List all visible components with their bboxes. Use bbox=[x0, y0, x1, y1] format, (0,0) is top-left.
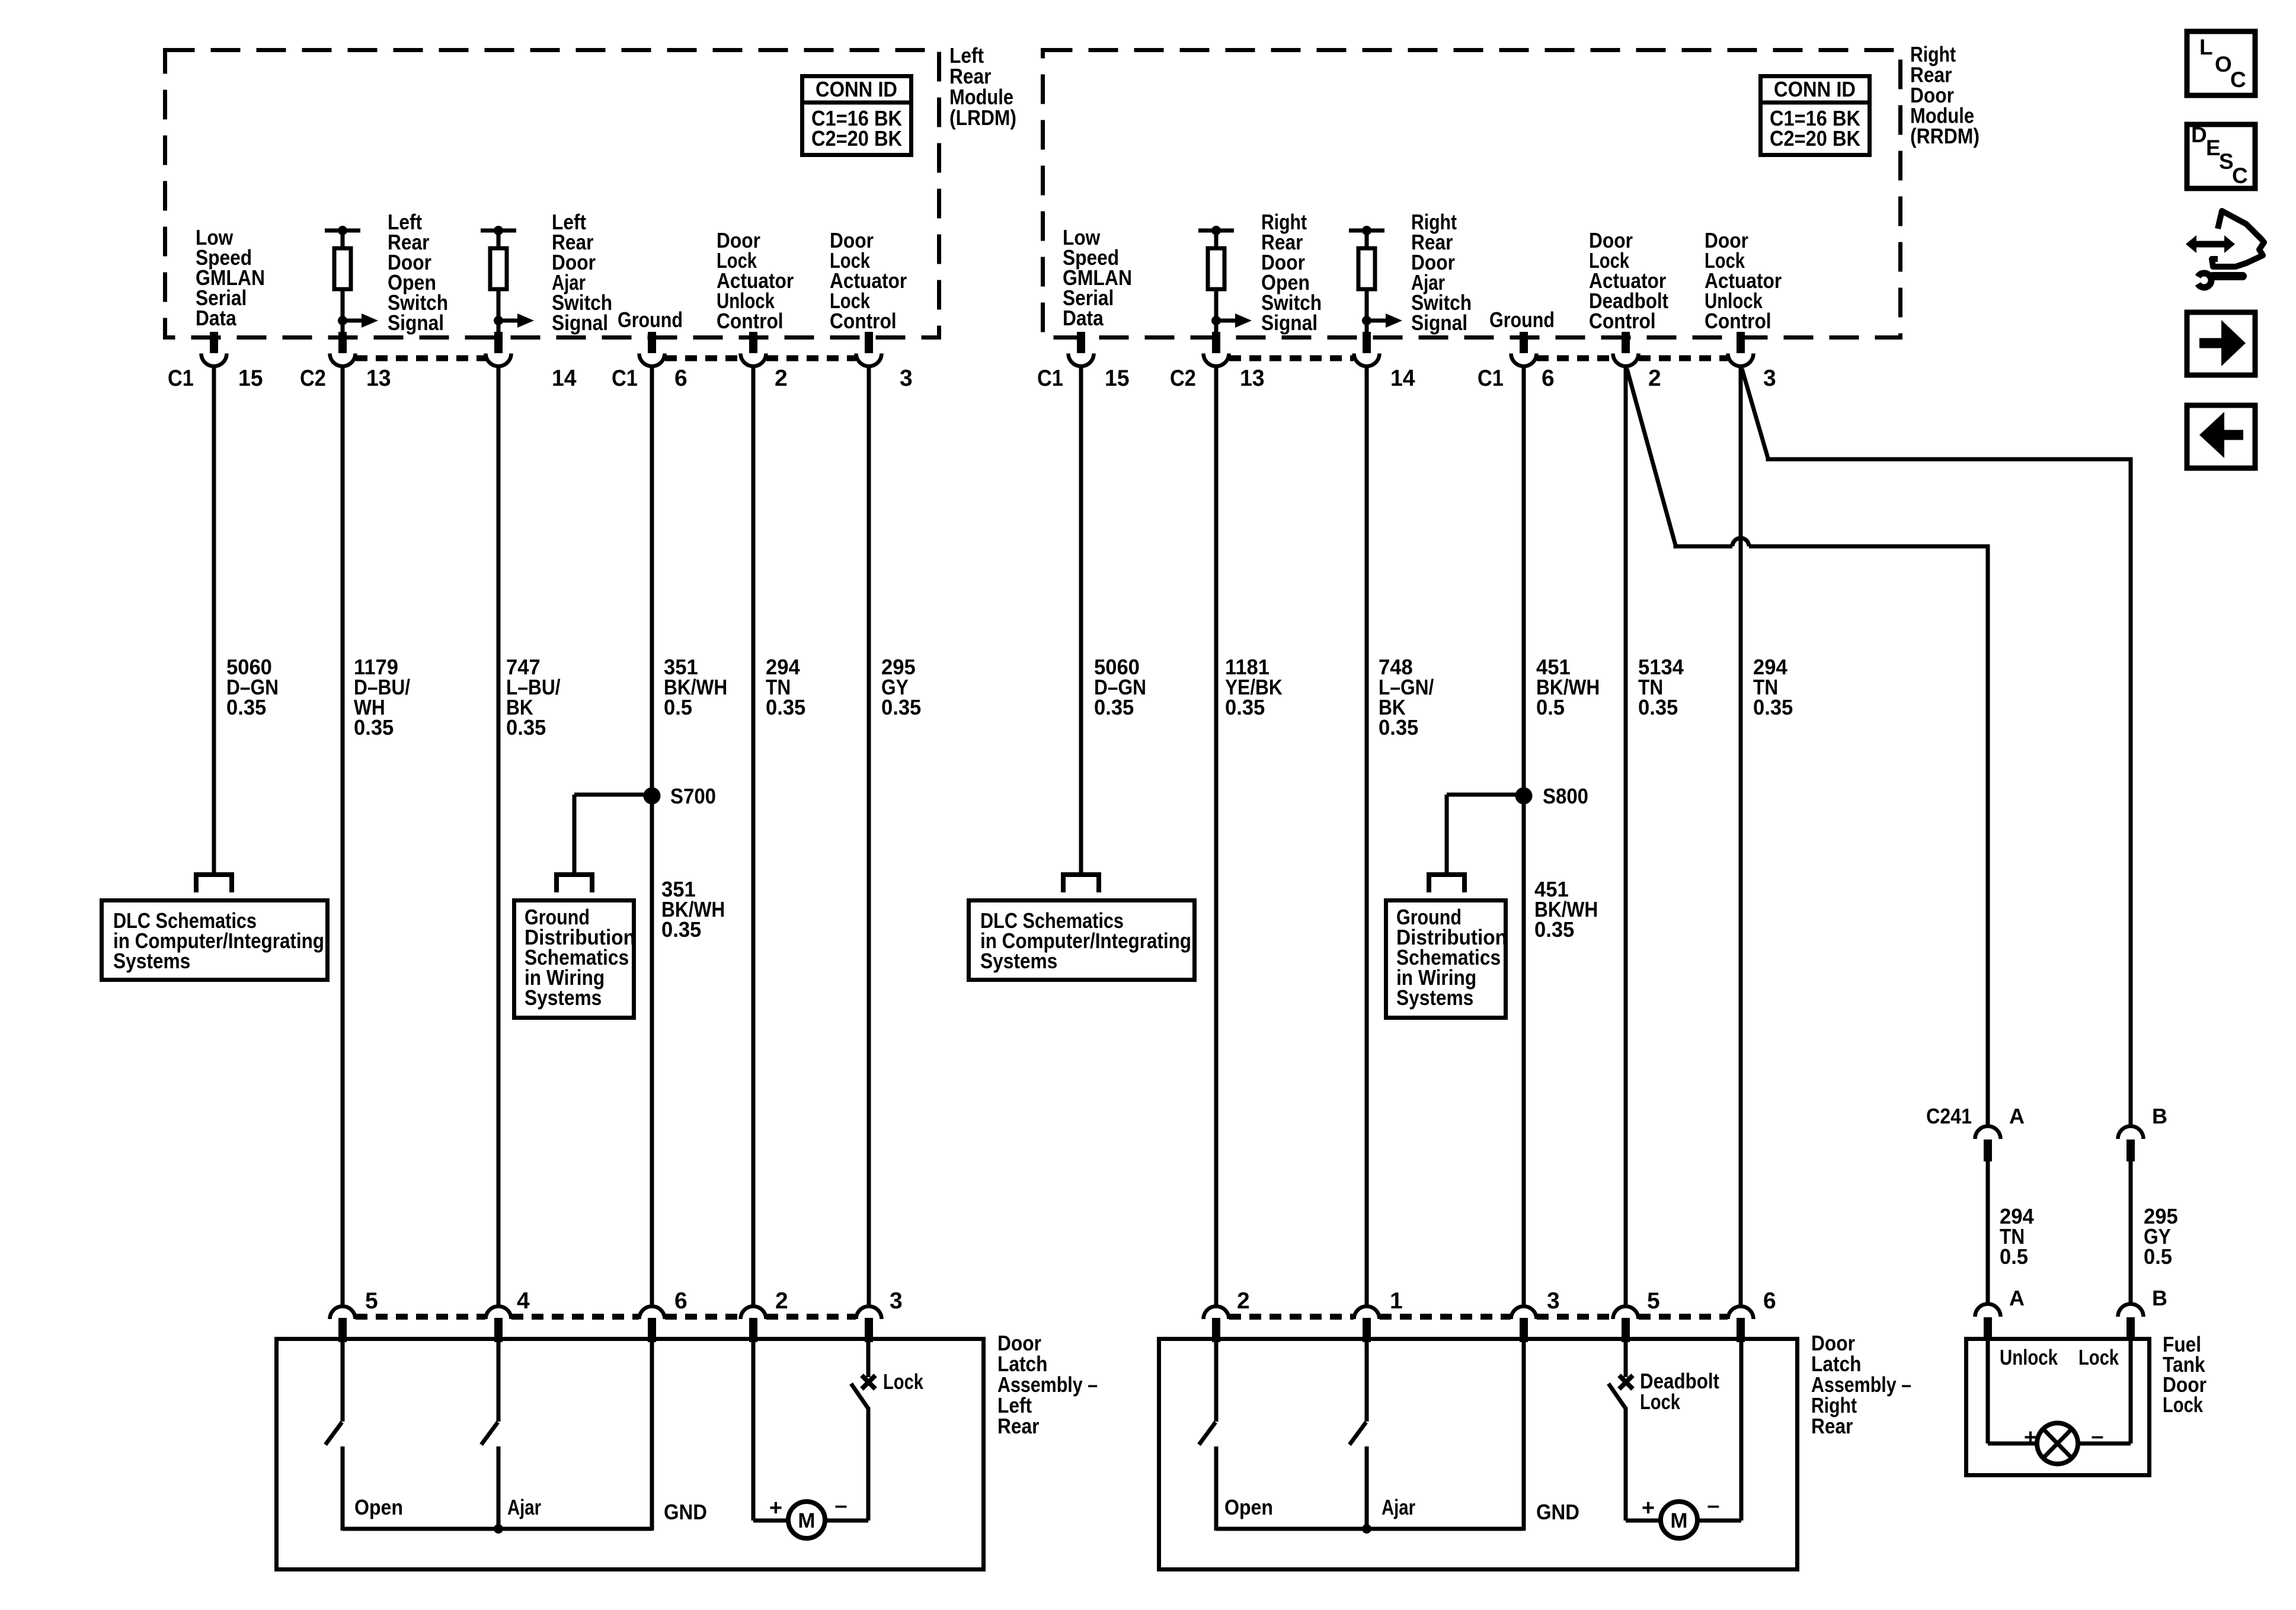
svg-text:Signal: Signal bbox=[1411, 311, 1467, 335]
svg-text:C1: C1 bbox=[612, 366, 638, 391]
svg-text:Systems: Systems bbox=[113, 949, 190, 973]
connector pin 2 (RRDM) bbox=[1622, 332, 1630, 353]
switch lower wire bbox=[1214, 1446, 1219, 1531]
switch lower wire bbox=[497, 1446, 501, 1531]
latch connector pin 6 (right) bbox=[1728, 1307, 1754, 1320]
svg-text:C2=20 BK: C2=20 BK bbox=[811, 126, 902, 151]
svg-text:Data: Data bbox=[196, 306, 237, 330]
wire top bar at resistor x=2306 bbox=[1349, 229, 1384, 233]
svg-text:0.35: 0.35 bbox=[1225, 695, 1265, 719]
svg-text:2: 2 bbox=[775, 366, 788, 391]
latch connector pin 3 (right) bbox=[1511, 1307, 1537, 1320]
latch connector dashed line (right) bbox=[1229, 1314, 1354, 1320]
svg-text:O: O bbox=[2215, 52, 2232, 76]
wire 295 GY (left) bbox=[867, 365, 871, 1306]
svg-text:Unlock: Unlock bbox=[2000, 1345, 2058, 1369]
svg-text:A: A bbox=[2009, 1286, 2025, 1310]
switch upper wire bbox=[497, 1340, 501, 1422]
svg-text:Open: Open bbox=[1224, 1495, 1273, 1519]
X mark bbox=[862, 1375, 875, 1389]
svg-text:C: C bbox=[2230, 68, 2246, 92]
wire top bar at resistor x=841 bbox=[481, 229, 516, 233]
svg-text:0.35: 0.35 bbox=[661, 917, 701, 942]
svg-text:0.35: 0.35 bbox=[1379, 715, 1418, 740]
connector dashed line C2 (RRDM) bbox=[1229, 356, 1354, 361]
svg-text:6: 6 bbox=[674, 1288, 687, 1314]
signal arrow bbox=[498, 319, 519, 323]
wire top bar at resistor x=578 bbox=[325, 229, 360, 233]
svg-text:Lock: Lock bbox=[2163, 1393, 2204, 1417]
svg-text:15: 15 bbox=[1105, 366, 1130, 391]
resistor bbox=[497, 231, 501, 248]
fuel tank lock pin A bbox=[1975, 1304, 2001, 1317]
wire 5060 D-GN (RRDM C1-15) bbox=[1079, 365, 1083, 873]
switch lower wire bbox=[866, 1407, 871, 1521]
svg-text:3: 3 bbox=[1763, 366, 1776, 391]
DLC Schematics box (left) bbox=[102, 901, 328, 980]
svg-text:(RRDM): (RRDM) bbox=[1910, 124, 1980, 148]
signal arrow bbox=[1367, 319, 1387, 323]
GND wire (right latch) bbox=[1522, 1340, 1526, 1531]
motor M (right latch) bbox=[1661, 1502, 1697, 1538]
connector dashed line C2 (LRDM) bbox=[356, 356, 486, 361]
connector C241 pin B bbox=[2118, 1126, 2144, 1140]
svg-text:A: A bbox=[2009, 1104, 2025, 1128]
connector pin 3 (LRDM) bbox=[865, 332, 873, 353]
svg-text:Ajar: Ajar bbox=[1382, 1495, 1415, 1519]
svg-text:B: B bbox=[2152, 1286, 2167, 1310]
svg-text:Lock: Lock bbox=[2078, 1345, 2119, 1369]
ground bus (left latch) bbox=[343, 1527, 652, 1531]
latch connector pin 5 (left) bbox=[330, 1307, 356, 1320]
lamp wires bbox=[1986, 1338, 1990, 1443]
wire 295 GY 0.5 bbox=[2129, 1159, 2133, 1304]
svg-text:Systems: Systems bbox=[980, 949, 1057, 973]
connector dashed line C1 (RRDM) bbox=[1537, 356, 1613, 361]
wire to pin bbox=[341, 321, 345, 335]
switch upper wire bbox=[866, 1340, 871, 1377]
svg-text:C2=20 BK: C2=20 BK bbox=[1770, 126, 1860, 151]
junction dot bbox=[1362, 316, 1371, 325]
svg-text:2: 2 bbox=[1237, 1288, 1250, 1314]
junction dot bbox=[338, 316, 347, 325]
Ground Distribution box (right) bbox=[1386, 901, 1506, 1018]
wire 294 TN 0.5 bbox=[1986, 1159, 1990, 1304]
svg-text:13: 13 bbox=[1240, 366, 1265, 391]
wire to pin bbox=[497, 321, 501, 335]
icon DESC box bbox=[2187, 124, 2255, 188]
svg-text:5: 5 bbox=[365, 1288, 378, 1314]
svg-text:C1: C1 bbox=[168, 366, 194, 391]
GND wire (left latch) bbox=[650, 1340, 654, 1531]
junction dot bbox=[1362, 226, 1371, 235]
switch upper wire bbox=[1624, 1340, 1628, 1377]
svg-text:0.35: 0.35 bbox=[1753, 695, 1793, 719]
module RRDM dashed box bbox=[1043, 50, 1901, 338]
svg-text:C241: C241 bbox=[1926, 1104, 1972, 1128]
svg-text:Control: Control bbox=[830, 309, 897, 333]
svg-text:+: + bbox=[1642, 1496, 1655, 1521]
svg-text:Data: Data bbox=[1063, 306, 1104, 330]
svg-text:0.35: 0.35 bbox=[766, 695, 805, 719]
switch blade bbox=[1199, 1422, 1216, 1445]
wire 451 BK/WH bbox=[1522, 365, 1526, 1306]
svg-text:4: 4 bbox=[517, 1288, 530, 1314]
svg-text:0.35: 0.35 bbox=[1638, 695, 1678, 719]
switch blade bbox=[851, 1384, 868, 1409]
wire to pin bbox=[1214, 321, 1219, 335]
junction dot bbox=[494, 226, 503, 235]
switch blade bbox=[1350, 1422, 1366, 1445]
svg-text:0.5: 0.5 bbox=[1536, 695, 1565, 719]
svg-text:+: + bbox=[2024, 1425, 2037, 1450]
off-page connector (right branch) bbox=[1429, 875, 1464, 892]
svg-text:M: M bbox=[798, 1509, 815, 1532]
svg-text:Systems: Systems bbox=[525, 985, 602, 1010]
switch blade bbox=[1609, 1384, 1626, 1409]
latch connector pin 2 (left) bbox=[741, 1307, 766, 1320]
svg-text:D: D bbox=[2191, 123, 2207, 147]
junction dot bbox=[1211, 316, 1221, 325]
svg-text:0.5: 0.5 bbox=[2144, 1244, 2172, 1269]
svg-text:M: M bbox=[1670, 1509, 1687, 1532]
svg-text:Ground: Ground bbox=[1489, 308, 1555, 332]
junction dot bbox=[338, 226, 347, 235]
ground bus (right latch) bbox=[1216, 1527, 1524, 1531]
switch upper wire bbox=[1365, 1340, 1369, 1422]
svg-text:(LRDM): (LRDM) bbox=[949, 105, 1016, 130]
splice S800 bbox=[1515, 788, 1533, 805]
motor circuit (left latch) bbox=[752, 1340, 756, 1521]
branch wire to ground schematic (right) bbox=[1447, 793, 1524, 797]
svg-text:5: 5 bbox=[1647, 1288, 1660, 1314]
svg-text:2: 2 bbox=[775, 1288, 788, 1314]
svg-text:6: 6 bbox=[1542, 366, 1555, 391]
wire 294 TN (left) bbox=[752, 365, 756, 1306]
icon forward arrow box bbox=[2187, 312, 2255, 375]
motor M (left latch) bbox=[788, 1502, 825, 1538]
icon LOC box bbox=[2187, 31, 2255, 95]
latch connector pin 5 (right) bbox=[1613, 1307, 1639, 1319]
svg-text:E: E bbox=[2206, 136, 2221, 160]
wire 747 L-BU/BK bbox=[497, 365, 501, 1306]
wire 294 TN (right) bbox=[1739, 365, 1743, 1306]
svg-text:0.5: 0.5 bbox=[2000, 1244, 2028, 1269]
connector pin C1-6 (RRDM) bbox=[1520, 332, 1528, 353]
fuel tank lock pin B bbox=[2118, 1304, 2144, 1317]
fuel tank door lock box bbox=[1966, 1339, 2150, 1475]
connector pin 2 (LRDM) bbox=[749, 332, 757, 353]
switch blade bbox=[481, 1422, 498, 1445]
Ground Distribution box (left) bbox=[514, 901, 634, 1018]
icon back arrow box bbox=[2187, 405, 2255, 468]
connector dashed line C1 (LRDM) bbox=[665, 356, 740, 361]
svg-text:CONN ID: CONN ID bbox=[1774, 77, 1856, 101]
svg-text:+: + bbox=[769, 1496, 782, 1521]
signal arrow bbox=[343, 319, 363, 323]
wire from RRDM pin3 to fuel lock lock bbox=[1742, 369, 2131, 1126]
svg-text:Systems: Systems bbox=[1396, 985, 1473, 1010]
svg-text:C1: C1 bbox=[1478, 366, 1504, 391]
svg-text:14: 14 bbox=[1390, 366, 1415, 391]
svg-text:6: 6 bbox=[1763, 1288, 1776, 1314]
svg-text:Signal: Signal bbox=[552, 311, 608, 335]
svg-text:Rear: Rear bbox=[997, 1414, 1039, 1438]
CONN ID box (LRDM) bbox=[802, 76, 912, 155]
svg-text:0.35: 0.35 bbox=[1094, 695, 1134, 719]
svg-text:0.35: 0.35 bbox=[354, 715, 394, 740]
svg-text:GND: GND bbox=[664, 1500, 707, 1524]
svg-text:Control: Control bbox=[1589, 309, 1656, 333]
svg-text:C2: C2 bbox=[1170, 366, 1196, 391]
icon connector-end-view (double arrow, outline, wrench) bbox=[2195, 241, 2226, 248]
svg-text:Rear: Rear bbox=[1811, 1414, 1853, 1438]
svg-text:S800: S800 bbox=[1543, 784, 1588, 808]
svg-text:6: 6 bbox=[674, 366, 687, 391]
connector pin C1-15 (RRDM) bbox=[1077, 332, 1085, 353]
svg-text:C: C bbox=[2232, 164, 2248, 188]
lamp symbol bbox=[2037, 1423, 2078, 1464]
svg-text:3: 3 bbox=[1547, 1288, 1560, 1314]
svg-text:S: S bbox=[2219, 149, 2234, 174]
svg-text:Control: Control bbox=[717, 309, 784, 333]
svg-text:–: – bbox=[1707, 1493, 1719, 1518]
svg-text:L: L bbox=[2199, 35, 2213, 59]
resistor bbox=[341, 231, 345, 248]
svg-text:Control: Control bbox=[1705, 309, 1771, 333]
svg-text:13: 13 bbox=[366, 366, 391, 391]
wire 1181 YE/BK bbox=[1214, 365, 1219, 1306]
svg-text:–: – bbox=[834, 1493, 847, 1518]
latch connector pin 3 (left) bbox=[856, 1307, 882, 1320]
junction dot bbox=[494, 316, 503, 325]
CONN ID box (RRDM) bbox=[1761, 76, 1870, 155]
svg-text:3: 3 bbox=[890, 1288, 903, 1314]
switch upper wire bbox=[341, 1340, 345, 1422]
latch connector dashed line (left) bbox=[356, 1314, 485, 1320]
latch connector pin 1 (right) bbox=[1354, 1307, 1380, 1320]
connector pin C2-13 (RRDM) bbox=[1212, 332, 1220, 353]
resistor bbox=[1214, 231, 1219, 248]
wire top bar at resistor x=2052 bbox=[1198, 229, 1234, 233]
wire 5060 D-GN (LRDM C1-15) bbox=[212, 365, 216, 873]
wire 5134 TN bbox=[1624, 365, 1628, 1306]
svg-text:Ajar: Ajar bbox=[507, 1495, 541, 1519]
wire hop over 294 wire bbox=[1732, 538, 1749, 546]
svg-text:15: 15 bbox=[238, 366, 263, 391]
off-page connector (right col1) bbox=[1063, 875, 1099, 892]
resistor bbox=[1365, 231, 1369, 248]
DLC Schematics box (right) bbox=[969, 901, 1195, 980]
off-page connector (left col1) bbox=[196, 875, 232, 892]
svg-text:C1: C1 bbox=[1037, 366, 1063, 391]
switch lower wire bbox=[1365, 1446, 1369, 1531]
splice S700 bbox=[644, 788, 661, 805]
wire 748 L-GN/BK bbox=[1365, 365, 1369, 1306]
X mark bbox=[1619, 1375, 1633, 1389]
svg-text:Ground: Ground bbox=[618, 308, 683, 332]
junction dot bbox=[1211, 226, 1221, 235]
connector pin 3 (RRDM) bbox=[1737, 332, 1745, 353]
wire 1179 D-BU/WH bbox=[341, 365, 345, 1306]
svg-text:S700: S700 bbox=[670, 784, 716, 808]
latch connector pin 2 (right) bbox=[1204, 1307, 1229, 1320]
wire from RRDM pin2 to fuel lock unlock bbox=[1627, 369, 1732, 546]
svg-text:Open: Open bbox=[354, 1495, 403, 1519]
switch blade bbox=[325, 1422, 342, 1445]
off-page connector (left branch) bbox=[557, 875, 592, 892]
wire 351 BK/WH bbox=[650, 365, 654, 1306]
svg-text:Signal: Signal bbox=[388, 311, 444, 335]
motor circuit (right latch) bbox=[1626, 1519, 1662, 1523]
switch lower wire bbox=[1624, 1407, 1628, 1521]
svg-text:0.35: 0.35 bbox=[881, 695, 921, 719]
connector pin 14 (LRDM) bbox=[494, 332, 503, 353]
wire to pin bbox=[1365, 321, 1369, 335]
svg-text:14: 14 bbox=[552, 366, 577, 391]
svg-text:0.35: 0.35 bbox=[1534, 917, 1574, 942]
switch lower wire bbox=[341, 1446, 345, 1531]
door latch assembly left rear box bbox=[277, 1339, 984, 1570]
connector C241 pin A bbox=[1975, 1126, 2001, 1140]
svg-text:GND: GND bbox=[1536, 1500, 1579, 1524]
svg-text:0.35: 0.35 bbox=[506, 715, 546, 740]
latch connector pin 6 (left) bbox=[639, 1307, 665, 1320]
svg-text:B: B bbox=[2152, 1104, 2167, 1128]
switch upper wire bbox=[1214, 1340, 1219, 1422]
connector pin C1-15 (LRDM) bbox=[210, 332, 218, 353]
svg-text:–: – bbox=[2091, 1424, 2103, 1449]
signal arrow bbox=[1216, 319, 1236, 323]
svg-text:C2: C2 bbox=[300, 366, 326, 391]
svg-text:1: 1 bbox=[1390, 1288, 1403, 1314]
connector pin 14 (RRDM) bbox=[1363, 332, 1371, 353]
svg-text:CONN ID: CONN ID bbox=[816, 77, 897, 101]
connector pin C1-6 (LRDM) bbox=[648, 332, 656, 353]
svg-text:3: 3 bbox=[900, 366, 913, 391]
svg-text:0.5: 0.5 bbox=[664, 695, 692, 719]
latch connector pin 4 (left) bbox=[486, 1307, 511, 1320]
svg-text:Signal: Signal bbox=[1261, 311, 1318, 335]
svg-text:0.35: 0.35 bbox=[226, 695, 266, 719]
svg-text:2: 2 bbox=[1648, 366, 1661, 391]
connector pin C2-13 (LRDM) bbox=[338, 332, 347, 353]
svg-text:Lock: Lock bbox=[883, 1369, 924, 1394]
door latch assembly right rear box bbox=[1159, 1339, 1798, 1570]
module LRDM dashed box bbox=[165, 50, 939, 338]
branch wire to ground schematic (left) bbox=[574, 793, 652, 797]
svg-text:Lock: Lock bbox=[1640, 1390, 1681, 1414]
